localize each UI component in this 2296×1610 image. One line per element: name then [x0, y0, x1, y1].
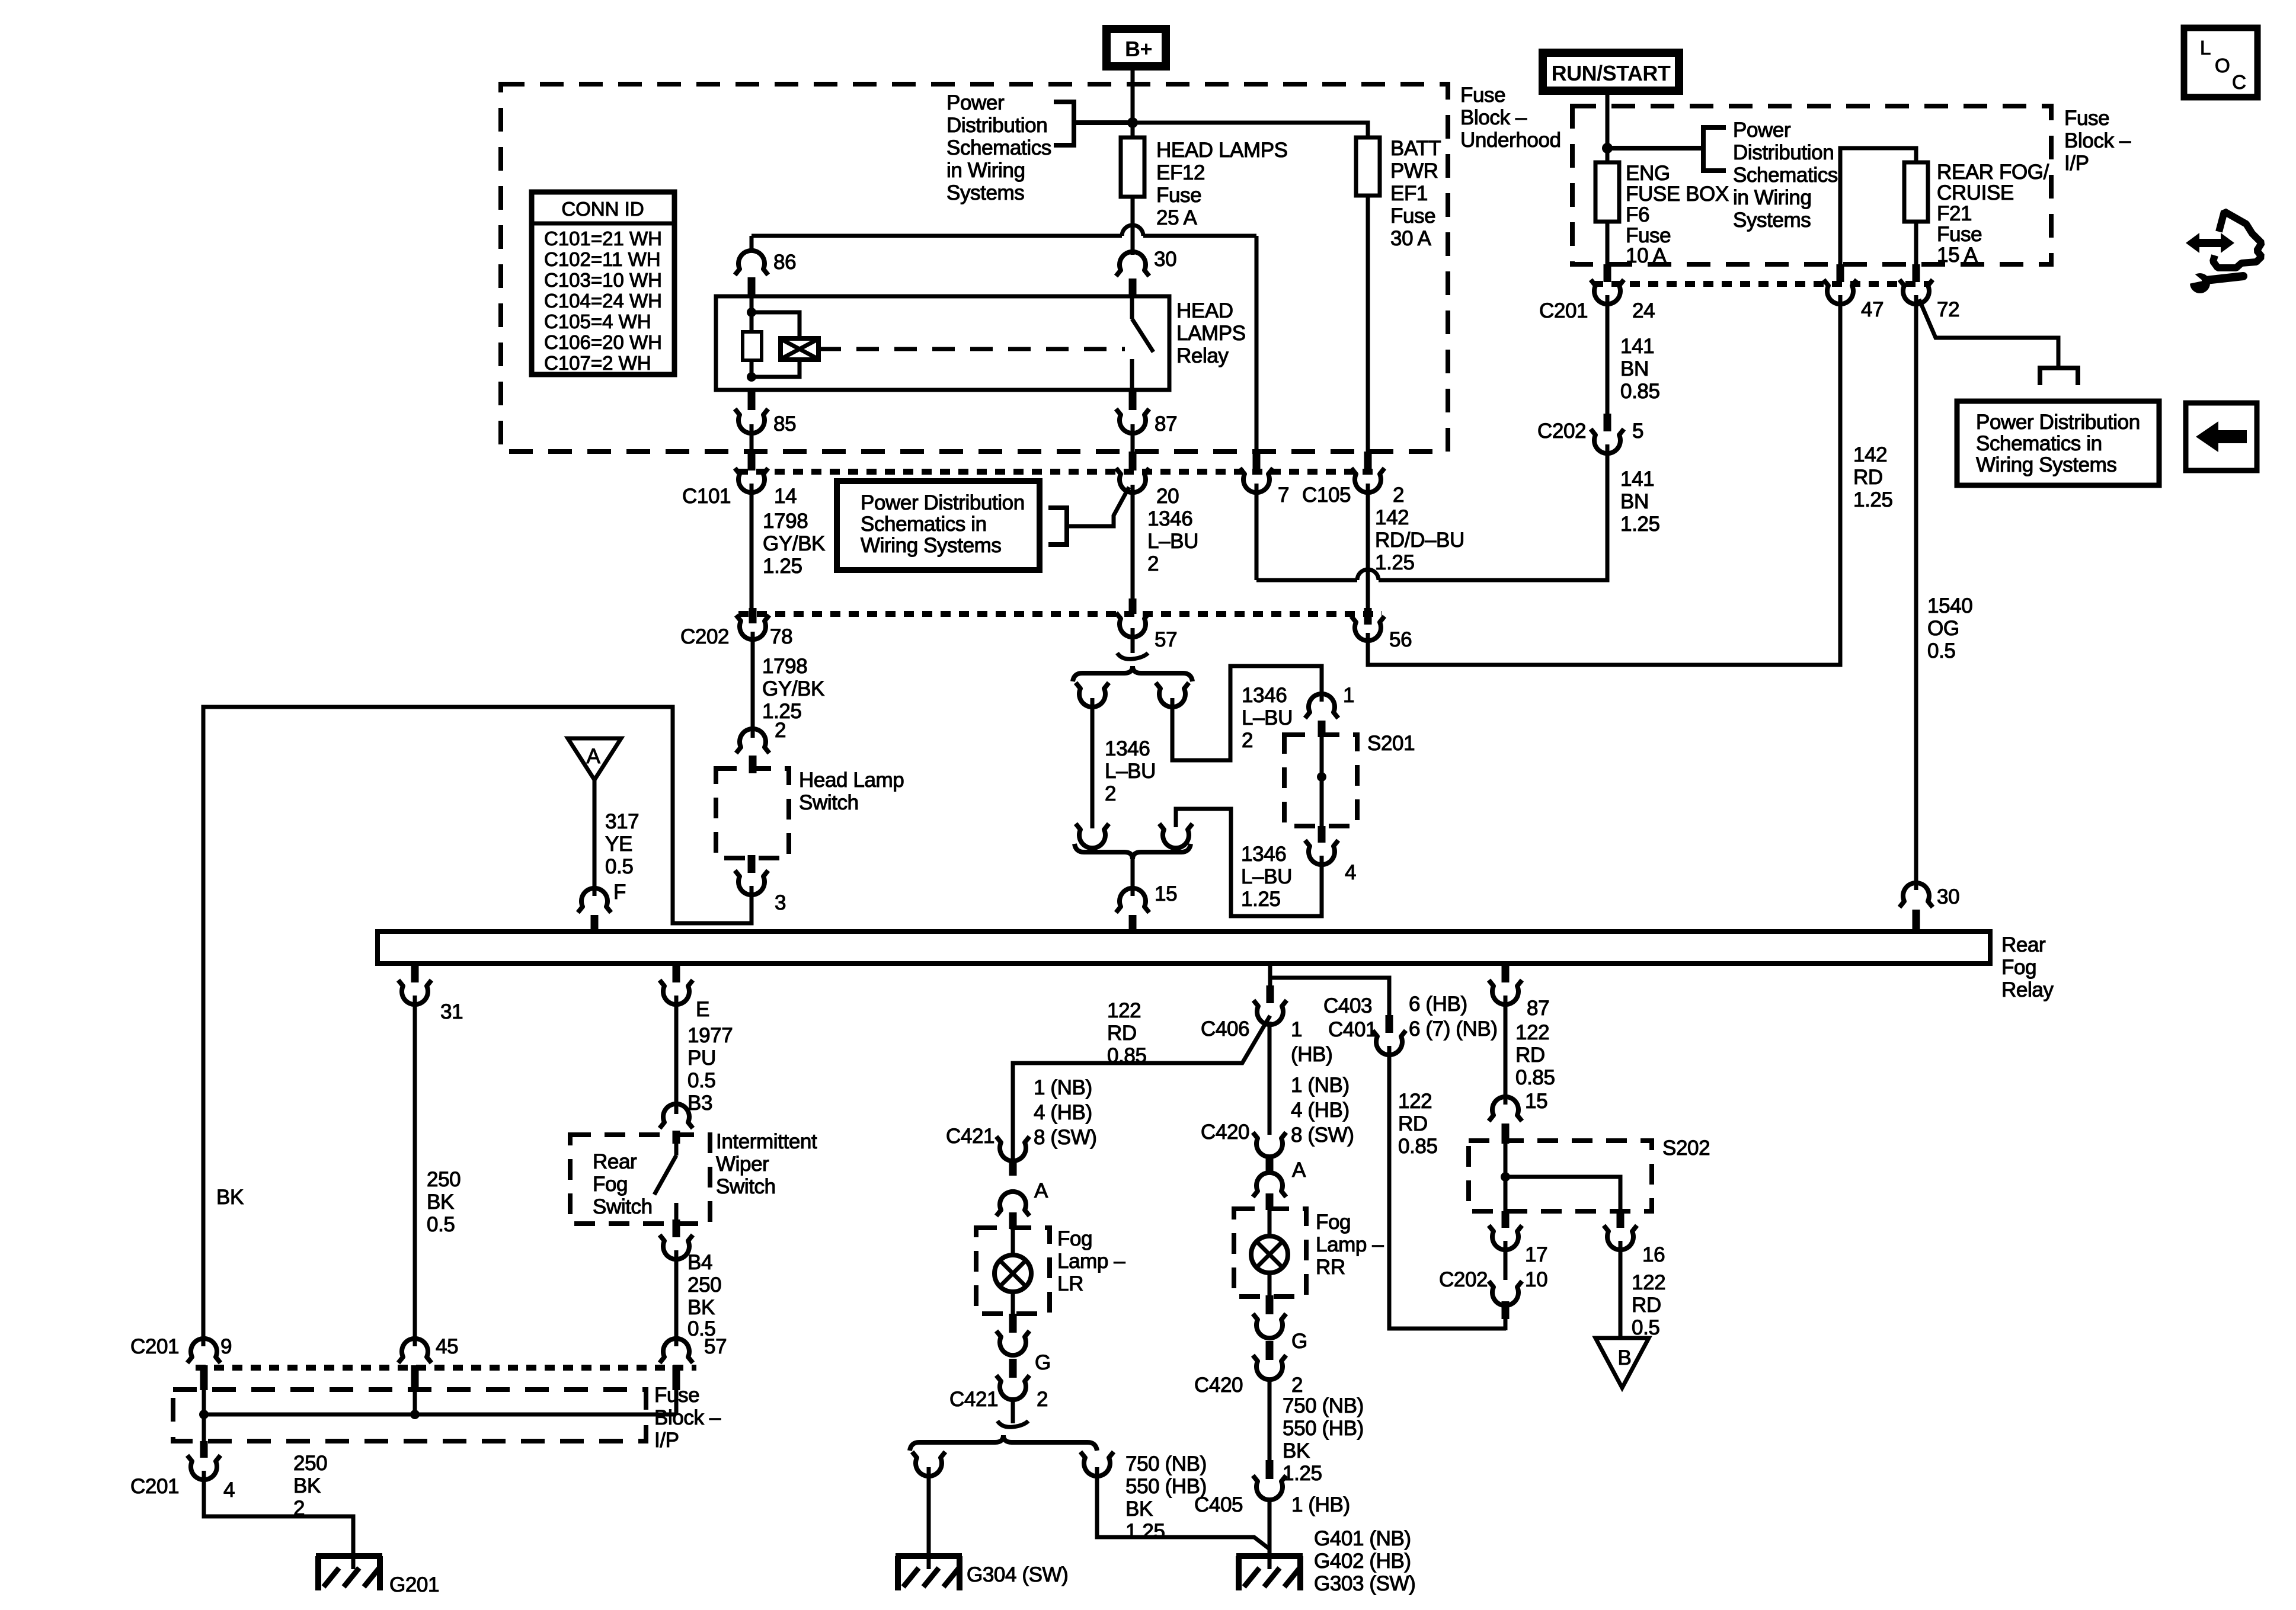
wire F21 feed inside fuse block	[1840, 148, 1916, 264]
svg-text:GY/BK: GY/BK	[762, 677, 824, 700]
svg-text:1.25: 1.25	[1125, 1520, 1165, 1543]
labels C201 24 47 72	[1539, 298, 1959, 322]
svg-text:C105: C105	[1302, 484, 1351, 507]
labels C201 9 45 57	[130, 1335, 727, 1358]
relay U1 HEAD LAMPS Relay box	[716, 296, 1169, 390]
svg-text:Power Distribution: Power Distribution	[861, 491, 1025, 514]
C202 connector row	[738, 611, 1382, 617]
svg-text:Schematics: Schematics	[1733, 164, 1838, 187]
svg-text:C201: C201	[130, 1335, 179, 1358]
svg-text:A: A	[587, 745, 601, 768]
svg-text:8 (SW): 8 (SW)	[1034, 1126, 1096, 1149]
svg-text:15 A: 15 A	[1937, 244, 1978, 267]
svg-text:1977: 1977	[687, 1024, 733, 1047]
svg-text:Switch: Switch	[799, 791, 859, 814]
C201 pin 9 connector	[187, 1339, 220, 1390]
svg-text:O: O	[2215, 55, 2230, 76]
relay terminal 86 connector	[735, 251, 768, 297]
svg-text:Fuse: Fuse	[2064, 107, 2109, 130]
label 14 / 1798 GY/BK 1.25	[763, 485, 825, 578]
rear fog relay terminal E connector	[660, 964, 693, 1004]
svg-text:7: 7	[1278, 484, 1289, 507]
wire C421-2 to split	[1011, 1397, 1015, 1423]
svg-text:9: 9	[220, 1335, 232, 1358]
rear fog relay terminal 15 connector	[1116, 888, 1149, 933]
off-page triangle A	[568, 738, 621, 780]
C202 pin 10 connector	[1489, 1241, 1522, 1319]
labels C202 5	[1537, 420, 1643, 443]
svg-text:ENG: ENG	[1626, 162, 1670, 185]
wire C420-2 to C405, labels 750 (NB) 550 (HB) BK 1.25	[1269, 1378, 1364, 1485]
svg-text:1.25: 1.25	[763, 555, 802, 578]
head lamp switch pin 2 connector	[736, 729, 769, 773]
svg-text:0.5: 0.5	[1632, 1316, 1659, 1339]
wire horizontal to relay 86 and to C105-7	[752, 236, 1256, 453]
svg-text:in Wiring: in Wiring	[1733, 186, 1812, 209]
Fuse Block - Underhood dashed box	[501, 84, 1448, 452]
svg-text:1.25: 1.25	[1375, 551, 1415, 574]
labels C420 2	[1194, 1374, 1303, 1397]
svg-text:C403: C403	[1323, 994, 1372, 1017]
svg-text:1346: 1346	[1147, 507, 1192, 530]
svg-text:0.5: 0.5	[605, 855, 633, 878]
labels C421 / 1 (NB) 4 (HB) 8 (SW)	[946, 1076, 1096, 1149]
wire triangle A to relay F, label 317 YE 0.5	[594, 780, 639, 896]
wire C406 down RR column	[1268, 1022, 1272, 1135]
wire C202-78 to head lamp switch, label 1798 GY/BK 1.25	[753, 632, 824, 738]
svg-text:F: F	[613, 881, 626, 904]
labels C405 1 (HB)	[1194, 1493, 1350, 1516]
wire B4 to C201-57, labels B4 250 BK 0.5	[676, 1250, 721, 1346]
svg-text:4: 4	[1345, 861, 1356, 884]
wire EF1 to C105-2	[1366, 196, 1370, 453]
svg-text:250: 250	[427, 1168, 461, 1191]
svg-text:Power Distribution: Power Distribution	[1976, 411, 2140, 434]
svg-text:31: 31	[440, 1000, 463, 1023]
S202 pin 16 connector	[1604, 1211, 1637, 1250]
svg-text:317: 317	[605, 810, 639, 833]
fog lamp LR pin A connector	[996, 1160, 1029, 1229]
C202 pin 5 connector	[1591, 414, 1624, 453]
svg-text:L–BU: L–BU	[1242, 706, 1293, 729]
node RUN/START junction	[1602, 143, 1613, 153]
svg-text:G401 (NB): G401 (NB)	[1314, 1527, 1411, 1550]
B+ power symbol	[1107, 29, 1166, 66]
svg-text:Fuse: Fuse	[1937, 223, 1982, 246]
svg-text:Wiring Systems: Wiring Systems	[1976, 453, 2117, 476]
label Head Lamp Switch	[799, 769, 904, 814]
svg-text:Relay: Relay	[1176, 344, 1229, 367]
wire C201-72 branch to reference box	[1919, 299, 2058, 368]
svg-text:25 A: 25 A	[1156, 206, 1198, 229]
svg-text:56: 56	[1389, 628, 1412, 651]
svg-text:I/P: I/P	[2064, 152, 2089, 175]
svg-text:17: 17	[1525, 1243, 1547, 1266]
back arrow box	[2186, 403, 2257, 470]
svg-text:BATT: BATT	[1390, 137, 1441, 160]
fuse F21 REAR FOG/CRUISE 15A	[1904, 162, 1928, 222]
svg-text:G: G	[1035, 1351, 1051, 1374]
wire F21 to C201-72	[1914, 222, 1918, 265]
svg-text:3: 3	[775, 891, 786, 914]
svg-text:HEAD: HEAD	[1176, 299, 1233, 322]
label Rear Fog Switch	[593, 1150, 653, 1218]
resistor (relay)	[743, 332, 762, 360]
svg-text:L: L	[2200, 37, 2211, 59]
labels C201 4	[130, 1475, 235, 1502]
svg-text:Lamp –: Lamp –	[1316, 1233, 1384, 1256]
svg-text:Intermittent: Intermittent	[716, 1130, 817, 1153]
svg-text:30: 30	[1154, 248, 1176, 271]
svg-text:G303 (SW): G303 (SW)	[1314, 1572, 1415, 1595]
C421 pin 1 connector	[996, 1137, 1029, 1161]
C202 pin 57 connector	[1116, 598, 1149, 637]
svg-text:RD: RD	[1853, 466, 1883, 489]
label Fuse Block - I/P	[2064, 107, 2131, 175]
relay terminal 85 connector	[735, 390, 768, 433]
label Power Distribution Schematics in Wiring Systems (top)	[946, 91, 1051, 204]
svg-text:Rear: Rear	[593, 1150, 637, 1173]
ground branch right connector	[1080, 1452, 1114, 1476]
wire C101-20 to C202-57	[1131, 485, 1135, 610]
CONN ID table	[532, 192, 674, 375]
svg-text:1 (NB): 1 (NB)	[1034, 1076, 1092, 1099]
svg-text:RD: RD	[1515, 1044, 1545, 1067]
fog lamp LR pin G connector	[996, 1314, 1029, 1355]
svg-text:550 (HB): 550 (HB)	[1283, 1417, 1364, 1440]
svg-text:G201: G201	[389, 1573, 439, 1596]
svg-text:RD/D–BU: RD/D–BU	[1375, 529, 1464, 552]
wire pin 16 to triangle B, label 122 RD 0.5	[1620, 1241, 1665, 1339]
svg-text:1346: 1346	[1105, 737, 1150, 760]
svg-text:G: G	[1291, 1330, 1307, 1353]
wire left branch to G304	[927, 1467, 931, 1569]
svg-text:RUN/START: RUN/START	[1552, 61, 1671, 85]
bundle tick above splice	[1117, 653, 1148, 659]
svg-text:750 (NB): 750 (NB)	[1125, 1452, 1207, 1475]
labels C421 2	[949, 1388, 1048, 1411]
label Rear Fog Relay	[2001, 933, 2054, 1001]
svg-text:A: A	[1292, 1158, 1306, 1182]
wire right branch to G303, label 750 (NB) 550 (HB) BK 1.25	[1097, 1452, 1269, 1549]
svg-text:2: 2	[293, 1497, 305, 1520]
svg-text:122: 122	[1107, 999, 1141, 1022]
svg-text:45: 45	[436, 1335, 458, 1358]
Fog Lamp LR dashed box	[976, 1228, 1050, 1314]
svg-text:4 (HB): 4 (HB)	[1034, 1101, 1092, 1124]
svg-text:BK: BK	[687, 1296, 715, 1319]
wire C105-2 to C202-56	[1366, 484, 1370, 612]
wire C201-4 to ground G201, label 250 BK 2	[204, 1452, 353, 1569]
svg-text:I/P: I/P	[654, 1429, 679, 1452]
labels G401 (NB) G402 (HB) G303 (SW)	[1314, 1527, 1415, 1595]
svg-text:C420: C420	[1194, 1374, 1243, 1397]
svg-text:0.85: 0.85	[1620, 380, 1660, 403]
wire relay bar to C406 and C403	[1270, 964, 1389, 1016]
svg-text:BK: BK	[1283, 1439, 1310, 1462]
svg-text:EF12: EF12	[1156, 161, 1205, 184]
component bracket above reference box	[2040, 368, 2078, 385]
svg-text:C: C	[2232, 71, 2246, 93]
svg-text:2: 2	[1291, 1374, 1303, 1397]
relay coil branch wires	[752, 296, 800, 377]
node coil bottom	[747, 372, 756, 382]
svg-text:0.85: 0.85	[1515, 1066, 1555, 1089]
svg-text:F6: F6	[1626, 203, 1649, 226]
wire merge to relay 15	[1131, 859, 1135, 896]
svg-text:BK: BK	[427, 1190, 454, 1214]
node coil top	[747, 308, 756, 317]
rear fog switch pin B4 connector	[660, 1219, 693, 1259]
ground branch left connector	[912, 1452, 945, 1476]
Fuse Block - I/P dashed box (bottom)	[173, 1390, 646, 1441]
svg-text:0.5: 0.5	[1927, 639, 1955, 662]
label 1346 L-BU 2 (right branch)	[1242, 684, 1293, 752]
wire C202-5 to C105-7, label 141 BN 1.25	[1256, 444, 1660, 580]
rear fog relay terminal 30 connector	[1900, 883, 1933, 933]
svg-text:15: 15	[1525, 1090, 1547, 1113]
svg-text:Wiring Systems: Wiring Systems	[861, 534, 1002, 557]
wire pin 6 to C202-10 link, label 122 RD 0.85	[1389, 1046, 1506, 1329]
svg-text:142: 142	[1853, 443, 1887, 466]
C421 pin 2 connector	[996, 1359, 1029, 1400]
svg-text:HEAD LAMPS: HEAD LAMPS	[1156, 139, 1288, 162]
svg-text:C105=4 WH: C105=4 WH	[544, 311, 651, 332]
svg-text:B: B	[1618, 1346, 1632, 1369]
splice S202 dashed box	[1469, 1141, 1652, 1211]
ground G304	[896, 1556, 962, 1590]
svg-text:1.25: 1.25	[1620, 513, 1660, 536]
Power Distribution Schematics reference box (middle)	[837, 481, 1040, 570]
wire 87 to C101-20	[1131, 424, 1135, 453]
C202 pin 78 connector	[736, 608, 769, 639]
labels C406 1 C403 C401 (HB)	[1201, 994, 1377, 1066]
svg-text:1798: 1798	[762, 655, 807, 678]
label ENG FUSE BOX F6 Fuse 10 A	[1626, 162, 1729, 267]
svg-text:Fog: Fog	[1316, 1211, 1351, 1234]
svg-text:Distribution: Distribution	[1733, 141, 1834, 164]
service icon: double arrow, outline and wrench	[2183, 212, 2262, 293]
svg-text:RD: RD	[1398, 1112, 1428, 1135]
wire hop at 142 crossing	[1357, 569, 1379, 580]
split brace fog lamp grounds	[910, 1435, 1097, 1451]
ground G201	[316, 1556, 382, 1590]
svg-text:C421: C421	[949, 1388, 998, 1411]
svg-text:15: 15	[1155, 882, 1177, 905]
wire C202-56 to C201-47	[1368, 295, 1840, 665]
svg-text:C421: C421	[946, 1125, 994, 1148]
svg-text:C103=10 WH: C103=10 WH	[544, 269, 662, 291]
svg-text:1.25: 1.25	[1241, 888, 1281, 911]
svg-text:EF1: EF1	[1390, 182, 1428, 205]
svg-text:B4: B4	[687, 1251, 712, 1274]
C105 pin 7 connector	[1240, 452, 1273, 492]
ground G303	[1236, 1556, 1303, 1590]
left branch wire, label 1346 L-BU 2	[1092, 698, 1156, 828]
label Intermittent Wiper Switch	[716, 1130, 817, 1198]
svg-text:1: 1	[1343, 684, 1354, 707]
bracket to Power Distribution reference (top)	[1054, 102, 1133, 145]
svg-text:2: 2	[1147, 552, 1159, 575]
wire C201-72 to rear fog relay 30, label 1540 OG 0.5	[1916, 295, 1972, 890]
svg-text:C104=24 WH: C104=24 WH	[544, 290, 662, 312]
svg-text:Block –: Block –	[2064, 129, 2131, 152]
merge branch connectors above relay 15	[1076, 824, 1192, 848]
svg-text:1.25: 1.25	[1853, 488, 1893, 511]
svg-text:YE: YE	[605, 833, 632, 856]
C420 pin 2 connector	[1253, 1341, 1286, 1379]
svg-text:Fog: Fog	[1057, 1227, 1092, 1250]
Fog Lamp RR dashed box	[1234, 1209, 1306, 1297]
S201 pin 1 connector	[1305, 694, 1338, 737]
svg-text:C202: C202	[680, 625, 729, 648]
C105 pin 2 connector	[1351, 452, 1384, 492]
right branch connector	[1156, 683, 1189, 707]
wire RUN/START to fuse F6	[1606, 95, 1610, 162]
svg-text:Block –: Block –	[1460, 106, 1527, 129]
C405 connector	[1253, 1460, 1286, 1500]
svg-text:47: 47	[1861, 298, 1884, 321]
svg-text:85: 85	[773, 412, 796, 436]
svg-text:10: 10	[1525, 1268, 1547, 1291]
svg-text:C107=2 WH: C107=2 WH	[544, 352, 651, 374]
bracket to Power Distribution reference (right)	[1607, 127, 1726, 171]
C201 pin 24 connector	[1591, 264, 1624, 304]
wire relay E to rear fog switch, labels 1977 PU 0.5 B3	[676, 996, 733, 1115]
svg-text:Fuse: Fuse	[1460, 84, 1505, 107]
label Fuse Block - Underhood	[1460, 84, 1561, 152]
wire S201 pin 4 to merge, label 1346 L-BU 1.25	[1176, 809, 1322, 916]
label Fuse Block - I/P (bottom)	[654, 1384, 721, 1452]
svg-text:30 A: 30 A	[1390, 227, 1432, 250]
svg-text:Systems: Systems	[946, 181, 1024, 204]
C201 connector row (top)	[1593, 281, 1930, 287]
svg-text:B3: B3	[687, 1092, 712, 1115]
fog lamp RR pin A connector	[1253, 1156, 1286, 1210]
C101 pin 14 connector	[735, 452, 768, 492]
svg-text:122: 122	[1632, 1271, 1665, 1294]
wire C202-10 to pin 6 link	[1504, 1319, 1508, 1330]
svg-text:122: 122	[1398, 1090, 1432, 1113]
splice S201 dashed box	[1284, 735, 1357, 826]
svg-text:250: 250	[293, 1452, 327, 1475]
svg-text:C406: C406	[1201, 1017, 1249, 1041]
svg-text:6 (HB): 6 (HB)	[1409, 993, 1467, 1016]
svg-text:Schematics in: Schematics in	[861, 513, 987, 536]
svg-text:S202: S202	[1662, 1137, 1710, 1160]
svg-text:1: 1	[1291, 1018, 1302, 1041]
svg-text:0.85: 0.85	[1107, 1044, 1147, 1067]
svg-text:F21: F21	[1937, 202, 1972, 225]
svg-text:L–BU: L–BU	[1105, 760, 1156, 783]
svg-text:6 (7) (NB): 6 (7) (NB)	[1409, 1017, 1498, 1041]
C101 pin 20 connector	[1116, 452, 1149, 492]
svg-text:BK: BK	[293, 1474, 321, 1497]
labels C420 / 1 (NB) 4 (HB) 8 (SW)	[1201, 1074, 1354, 1147]
relay terminal 87 connector	[1116, 390, 1149, 433]
svg-text:14: 14	[774, 485, 797, 508]
svg-text:(HB): (HB)	[1291, 1043, 1332, 1066]
svg-text:0.5: 0.5	[687, 1069, 715, 1092]
C201 pin 4 connector	[187, 1441, 220, 1480]
svg-text:L–BU: L–BU	[1241, 865, 1292, 888]
svg-text:86: 86	[773, 251, 796, 274]
svg-text:CONN ID: CONN ID	[561, 198, 644, 220]
svg-text:1346: 1346	[1242, 684, 1287, 707]
Rear Fog Switch dashed box	[570, 1135, 710, 1224]
label 142 RD 1.25	[1853, 443, 1893, 511]
bundle tick above split	[997, 1421, 1028, 1427]
wire C405 to ground G303	[1268, 1499, 1272, 1569]
S201 pin 4 connector	[1305, 826, 1338, 865]
svg-text:OG: OG	[1927, 617, 1959, 640]
svg-text:87: 87	[1527, 997, 1549, 1020]
svg-text:S201: S201	[1367, 732, 1415, 755]
svg-text:CRUISE: CRUISE	[1937, 181, 2014, 204]
C201 pin 47 connector	[1824, 264, 1857, 304]
labels 17 / C202 10	[1439, 1243, 1547, 1291]
rear fog relay terminal 31 connector	[398, 964, 431, 1004]
Fuse Block - I/P dashed box (top)	[1572, 106, 2051, 264]
rear fog relay terminal 87 connector	[1489, 964, 1522, 1004]
wire relay 31 to C201-45, label 250 BK 0.5	[415, 996, 461, 1346]
svg-text:141: 141	[1620, 335, 1654, 358]
wire relay 87 to S202, label 122 RD 0.85	[1505, 996, 1555, 1105]
lamp fog LR	[994, 1229, 1031, 1314]
label 2 / 142 RD/D-BU 1.25	[1375, 484, 1464, 574]
svg-text:Fog: Fog	[593, 1173, 628, 1196]
relay coil symbol	[781, 338, 818, 360]
svg-text:Wiper: Wiper	[716, 1153, 769, 1176]
svg-text:30: 30	[1937, 885, 1959, 908]
svg-text:Fuse: Fuse	[1156, 184, 1201, 207]
svg-text:BN: BN	[1620, 357, 1649, 380]
svg-text:8 (SW): 8 (SW)	[1291, 1124, 1354, 1147]
svg-text:G304 (SW): G304 (SW)	[967, 1563, 1068, 1586]
svg-text:16: 16	[1642, 1243, 1665, 1266]
svg-text:C101=21 WH: C101=21 WH	[544, 228, 662, 249]
svg-text:Schematics: Schematics	[946, 136, 1051, 159]
left branch connector	[1076, 683, 1109, 707]
svg-text:B+: B+	[1125, 37, 1152, 61]
svg-text:72: 72	[1937, 298, 1959, 321]
fog lamp RR pin G connector	[1253, 1295, 1286, 1338]
svg-text:122: 122	[1515, 1021, 1549, 1044]
svg-text:1 (HB): 1 (HB)	[1291, 1493, 1350, 1516]
label HEAD LAMPS Relay	[1176, 299, 1246, 367]
C201 connector row (bottom)	[196, 1365, 696, 1371]
relay terminal 30 connector	[1116, 252, 1149, 297]
wire C202-57 to splice brace	[1131, 628, 1135, 653]
svg-text:Schematics in: Schematics in	[1976, 432, 2102, 455]
svg-text:E: E	[696, 998, 709, 1021]
svg-text:2: 2	[1242, 729, 1253, 752]
svg-text:87: 87	[1155, 412, 1177, 436]
wire C101-14 to C202-78	[750, 484, 754, 610]
LOC legend box	[2184, 28, 2257, 97]
svg-text:Fog: Fog	[2001, 956, 2036, 979]
svg-text:1798: 1798	[763, 510, 808, 533]
svg-text:in Wiring: in Wiring	[946, 159, 1025, 182]
svg-text:Lamp –: Lamp –	[1057, 1250, 1125, 1273]
wire B+ to fuse EF12	[1131, 70, 1135, 137]
svg-text:142: 142	[1375, 506, 1409, 529]
svg-text:750 (NB): 750 (NB)	[1283, 1394, 1364, 1417]
svg-text:0.85: 0.85	[1398, 1135, 1438, 1158]
label 20 / 1346 L-BU 2	[1147, 485, 1198, 575]
wire C201-24 to C202-5, label 141 BN 0.85	[1607, 295, 1660, 415]
rear fog relay terminal F connector	[578, 888, 611, 933]
